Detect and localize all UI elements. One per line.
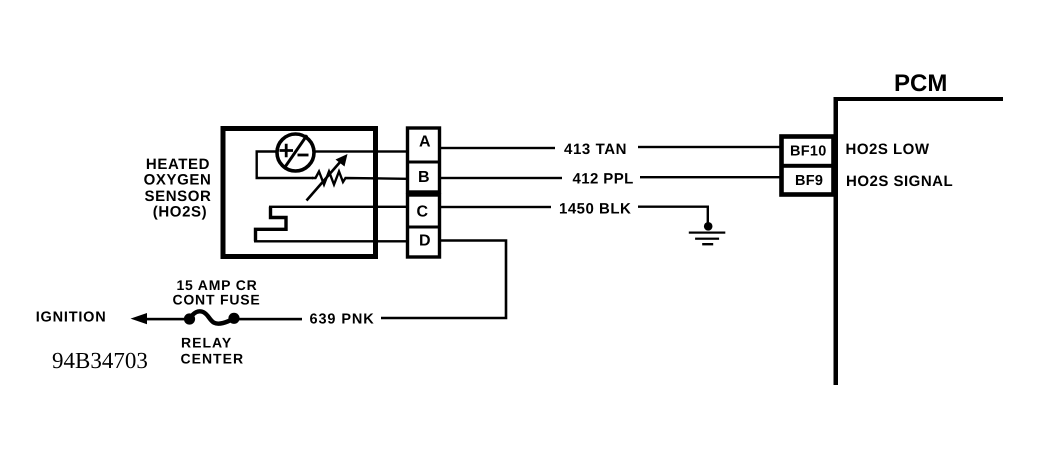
svg-text:(HO2S): (HO2S) [153, 204, 207, 221]
PCM top boundary line [834, 97, 1003, 101]
ground symbol [689, 222, 726, 245]
svg-text:HO2S SIGNAL: HO2S SIGNAL [846, 173, 953, 190]
svg-text:94B34703: 94B34703 [52, 348, 148, 373]
svg-text:OXYGEN: OXYGEN [144, 172, 212, 189]
svg-text:15 AMP CR: 15 AMP CR [176, 277, 257, 293]
label 15 AMP CR CONT FUSE [172, 277, 260, 308]
svg-text:A: A [419, 133, 431, 150]
heater element [256, 207, 287, 242]
label 1450 BLK [559, 200, 631, 217]
pin B label [418, 169, 430, 186]
svg-text:CENTER: CENTER [181, 350, 245, 366]
wire 639 PNK to fuse [239, 318, 302, 321]
pin D label [419, 233, 431, 250]
drawing number 94B34703 [52, 348, 148, 373]
wire from sensor cell to pin A [314, 150, 407, 152]
wire 413 TAN left segment [441, 147, 555, 149]
label IGNITION [36, 309, 107, 325]
PCM label [894, 70, 947, 97]
wire 413 TAN right segment [638, 146, 780, 148]
wire 412 PPL right segment [640, 176, 780, 178]
variable resistor (sensor element) R1 [307, 154, 407, 201]
label HO2S LOW [846, 141, 930, 158]
wire 1450 BLK left segment [441, 206, 551, 208]
svg-text:C: C [417, 203, 429, 220]
svg-text:RELAY: RELAY [181, 335, 232, 351]
connector block A-B [408, 128, 440, 192]
svg-text:BF9: BF9 [795, 173, 823, 189]
fuse 15 AMP CR CONT [184, 311, 240, 324]
wire 1450 BLK right segment to ground [638, 207, 708, 223]
pin A label [419, 133, 431, 150]
terminal BF10 [780, 137, 835, 195]
svg-text:CONT FUSE: CONT FUSE [172, 292, 260, 308]
pin C label [417, 203, 429, 220]
svg-text:PCM: PCM [894, 70, 947, 97]
wire heater to pin C [269, 206, 407, 208]
label 412 PPL [573, 171, 634, 188]
label HO2S SIGNAL [846, 173, 953, 190]
svg-text:1450 BLK: 1450 BLK [559, 200, 631, 217]
svg-text:SENSOR: SENSOR [145, 188, 212, 205]
label 413 TAN [564, 141, 627, 158]
svg-text:HO2S LOW: HO2S LOW [846, 141, 930, 158]
PCM left boundary line [834, 97, 839, 385]
svg-text:412 PPL: 412 PPL [573, 171, 634, 188]
svg-text:413 TAN: 413 TAN [564, 141, 627, 158]
label RELAY CENTER [181, 335, 245, 367]
sensor cell symbol (+/- circle) U1 [277, 134, 314, 171]
wire heater to pin D [254, 240, 407, 242]
svg-text:HEATED: HEATED [146, 156, 210, 173]
wire from sensor cell left down to element [257, 152, 313, 179]
svg-text:639 PNK: 639 PNK [310, 312, 375, 328]
ignition feed arrow [131, 313, 185, 324]
connector block C-D [408, 195, 440, 257]
svg-text:BF10: BF10 [790, 144, 827, 160]
wire 639 PNK vertical from pin D [381, 241, 506, 319]
svg-text:D: D [419, 233, 431, 250]
label 639 PNK [310, 312, 375, 328]
wire 412 PPL left segment [441, 177, 562, 179]
sensor label HEATED OXYGEN SENSOR (HO2S) [144, 156, 212, 221]
svg-text:B: B [418, 169, 430, 186]
terminal BF9 [795, 173, 823, 189]
oxygen sensor box [223, 129, 376, 257]
svg-text:IGNITION: IGNITION [36, 309, 107, 325]
